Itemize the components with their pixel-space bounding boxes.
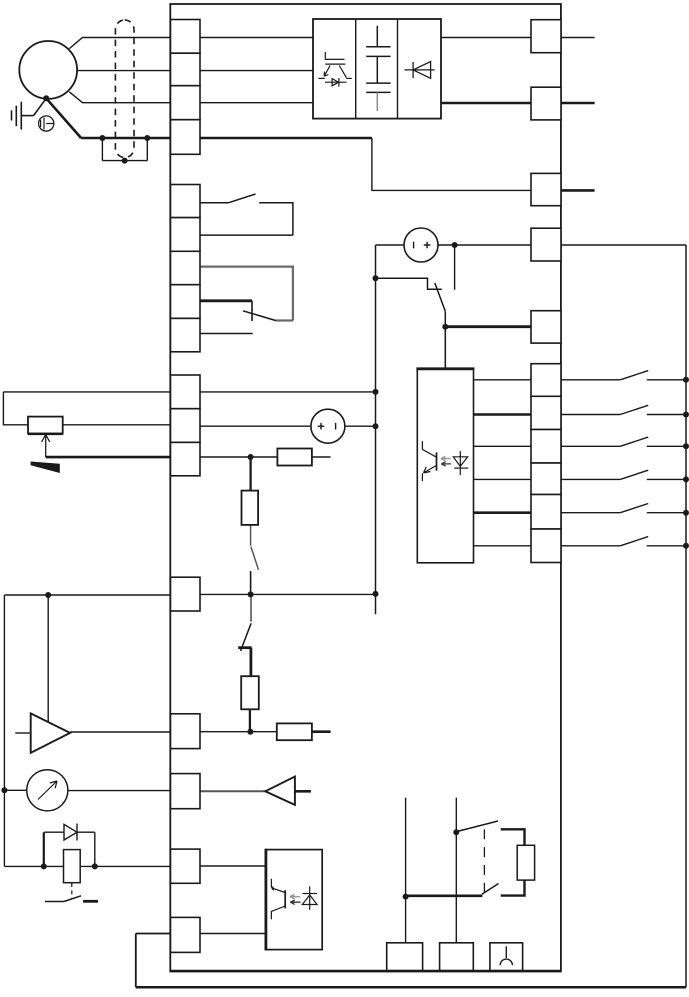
rectifier diode D2 xyxy=(405,62,435,79)
terminal left meter xyxy=(171,774,201,809)
battery B1 xyxy=(404,228,438,262)
diode D1 xyxy=(64,824,77,841)
node bus DI5 xyxy=(683,510,689,516)
opto U2 light arrow xyxy=(441,462,451,466)
wire diode D1 bypass xyxy=(44,831,95,833)
wire common rail left xyxy=(4,594,170,596)
meter M2 xyxy=(27,770,68,811)
wire stub below junction xyxy=(454,245,456,290)
wire W phase motor to terminal xyxy=(69,92,313,103)
wire potentiometer left leg xyxy=(3,392,28,425)
wire relay common vertical right xyxy=(455,798,457,943)
terminal right R4 xyxy=(531,228,561,261)
wire terminal to opto2 lower xyxy=(201,933,266,935)
earth probe icon xyxy=(500,946,512,965)
node zener right xyxy=(92,863,98,869)
node bus common xyxy=(373,591,379,597)
terminal right R3 xyxy=(531,173,561,205)
node motor PE xyxy=(43,95,49,101)
node rail common xyxy=(248,591,254,597)
opto U2 phototransistor xyxy=(422,441,436,481)
DC bus capacitor C2 xyxy=(366,83,390,92)
resistor R10 xyxy=(64,850,81,883)
node amp rail xyxy=(247,729,253,735)
wire amp input vertical xyxy=(47,595,49,722)
terminal right R1 xyxy=(531,20,561,53)
potentiometer P1 xyxy=(28,417,63,434)
node relay upper xyxy=(453,829,459,835)
wire battery B1 right lead xyxy=(438,244,531,246)
wire reverse pivot xyxy=(251,301,253,321)
terminal block left analog group xyxy=(171,375,201,476)
terminal left opto in 1 xyxy=(171,849,201,883)
node shield bottom xyxy=(122,158,128,164)
opto U3 LED xyxy=(302,886,317,910)
wire reverse common thick xyxy=(200,299,252,302)
node relay lower xyxy=(403,894,409,900)
amplifier A2 xyxy=(265,777,295,805)
node zener left xyxy=(41,863,47,869)
opto U2 LED xyxy=(453,451,468,475)
wire bypass right leg xyxy=(94,832,96,866)
wire opto1 out4 xyxy=(474,478,532,480)
wire bottom return xyxy=(136,986,686,989)
resistor R8 xyxy=(241,676,259,709)
node bus DI2 xyxy=(683,412,689,418)
wire inverter output U xyxy=(441,37,531,39)
wire digital common to bus xyxy=(561,244,686,246)
wire wiper thick xyxy=(46,456,171,459)
node bus DI4 xyxy=(683,476,689,482)
wire potentiometer top xyxy=(3,391,170,393)
potentiometer wiper arrow xyxy=(42,435,50,458)
main drive enclosure box xyxy=(170,4,561,971)
wire amp2 stub thick xyxy=(295,790,311,793)
wire dropper chain top thick xyxy=(249,457,251,491)
switch S4 blade xyxy=(251,547,259,570)
shield capsule dashed xyxy=(115,20,134,158)
wire opto1 out2 thick xyxy=(474,413,532,416)
opto U2 light arrow gray xyxy=(441,456,451,460)
wire opto1 feed xyxy=(444,327,446,369)
wire stub R2 thick xyxy=(561,102,595,105)
DC bus capacitor C1 xyxy=(366,26,390,83)
switch DI3 xyxy=(561,437,686,446)
wire analog common xyxy=(200,456,278,458)
amplifier A1 xyxy=(31,713,70,752)
node bus DI1 xyxy=(683,377,689,383)
relay lower bracket thick xyxy=(501,880,525,896)
motor M1 xyxy=(19,41,77,99)
switch S6 link dashed xyxy=(71,883,73,899)
wire analog in to battery B2 xyxy=(200,425,311,427)
enclosure bottom edge thick xyxy=(170,970,561,973)
wire opto1 out5 thick xyxy=(474,511,532,514)
node bus battery B2 xyxy=(373,423,379,429)
wire common rail right xyxy=(200,593,376,595)
wire bypass left leg thick xyxy=(43,832,45,866)
switch S2 reverse run loop gray xyxy=(200,267,293,321)
wire inverter output thick xyxy=(441,102,531,105)
wire U phase motor to terminal xyxy=(69,38,313,49)
terminal left amp out xyxy=(171,714,201,749)
wire resistor R8 to rail thick xyxy=(249,709,251,731)
wire stub ground terminal thick xyxy=(561,189,595,192)
switch S3 selector xyxy=(376,278,446,369)
ground symbol xyxy=(12,98,47,129)
wire meter to terminal xyxy=(68,790,171,792)
wire battery B2 to bus xyxy=(345,425,376,427)
wire seat to resistor R8 thick xyxy=(249,648,252,677)
wire common bus right xyxy=(685,245,687,987)
node R5 feed xyxy=(442,324,448,330)
switch DI4 xyxy=(561,470,686,479)
capacitor stem gray xyxy=(376,92,378,111)
relay coil resistor R11 xyxy=(517,845,534,880)
opto U3 phototransistor xyxy=(271,879,285,920)
node amp input xyxy=(45,592,51,598)
IGBT symbol xyxy=(318,52,351,87)
terminal left common xyxy=(171,577,201,611)
terminal left opto in 2 xyxy=(171,917,201,952)
wire opto1 out3 xyxy=(474,445,532,447)
wire vertical bus x375 xyxy=(375,245,377,614)
terminal block left motor group xyxy=(171,20,201,155)
node meter left xyxy=(1,787,7,793)
switch DI6 xyxy=(561,537,686,546)
terminal right DI group xyxy=(531,364,561,563)
node bus DI6 xyxy=(683,543,689,549)
relay mechanical link dashed xyxy=(483,829,485,893)
terminal bottom B2 xyxy=(440,943,474,971)
inverter block divider 2 xyxy=(397,19,399,119)
wire rail to opto2 xyxy=(201,865,266,867)
terminal block left control group xyxy=(171,185,201,352)
wire V phase motor to terminal xyxy=(77,70,313,72)
node shield right xyxy=(144,135,150,141)
node dropper top xyxy=(248,454,254,460)
switch DI1 xyxy=(561,371,686,380)
terminal bottom B1 xyxy=(387,943,423,971)
inverter block divider 1 xyxy=(355,19,357,119)
wire bottom return left leg xyxy=(136,934,171,988)
inverter block U1 xyxy=(313,19,441,119)
switch S5 blade xyxy=(241,623,252,651)
wire shield bonding loop xyxy=(102,138,147,161)
node bus DI3 xyxy=(683,443,689,449)
wire left loop vertical xyxy=(3,595,5,866)
wire relay bottom thick xyxy=(406,894,483,897)
wedge arrow filled xyxy=(31,462,60,474)
wire stub terminal xyxy=(200,333,253,335)
PE circle symbol xyxy=(39,116,54,131)
wire potentiometer to terminal xyxy=(63,424,171,426)
opto U3 light arrow gray xyxy=(290,894,300,898)
wire amp1 input stub xyxy=(15,732,30,734)
wire stub R1 xyxy=(561,37,595,39)
wire terminal to amp2 gray xyxy=(200,790,265,792)
node bus switch S3 xyxy=(373,275,379,281)
opto coupler block U3 xyxy=(266,850,322,950)
relay upper bracket thick xyxy=(501,829,525,845)
switch S1 forward run xyxy=(200,194,293,235)
resistor R6 xyxy=(277,449,312,466)
switch S5 seat thick xyxy=(238,646,251,649)
wire below resistor R7 xyxy=(250,525,252,546)
node shield left xyxy=(99,135,105,141)
wire PE to ground terminal xyxy=(372,138,531,190)
resistor R9 xyxy=(277,723,312,740)
wire relay common vertical left xyxy=(405,798,407,943)
terminal right R2 xyxy=(531,87,561,120)
resistor R7 xyxy=(242,491,259,525)
wire 10V reference right xyxy=(200,391,376,393)
switch S6 contact thick xyxy=(83,900,98,903)
switch S2 blade xyxy=(243,311,276,321)
wire battery B1 left lead xyxy=(376,244,405,246)
terminal right R5 xyxy=(531,311,561,343)
wire opto1 out6 xyxy=(474,545,532,547)
wire resistor R6 stub xyxy=(312,456,331,458)
wire amp1 output rail xyxy=(70,731,170,733)
opto coupler block U2 xyxy=(417,369,473,563)
wire opto1 out1 xyxy=(474,379,532,381)
wire PE shield thick xyxy=(46,98,372,138)
relay contact upper blade xyxy=(457,821,498,832)
battery B2 xyxy=(311,409,345,443)
switch S6 pushbutton xyxy=(45,896,81,902)
wire to junction xyxy=(250,571,252,594)
wire zener rail xyxy=(4,865,170,867)
wire resistor R9 stub thick xyxy=(312,730,331,733)
wire rail to resistor R9 xyxy=(200,731,277,733)
switch DI2 xyxy=(561,405,686,414)
wire dropper chain 2 gray stem xyxy=(250,594,252,621)
wire meter left xyxy=(4,789,26,791)
wire to terminal R5 thick xyxy=(445,325,531,328)
relay contact lower blade xyxy=(482,884,499,895)
terminal bottom B3 earth xyxy=(490,943,523,971)
node bus 10V xyxy=(373,389,379,395)
switch DI5 xyxy=(561,504,686,513)
node battery B1 out xyxy=(452,242,458,248)
opto U3 light arrow xyxy=(290,900,300,904)
